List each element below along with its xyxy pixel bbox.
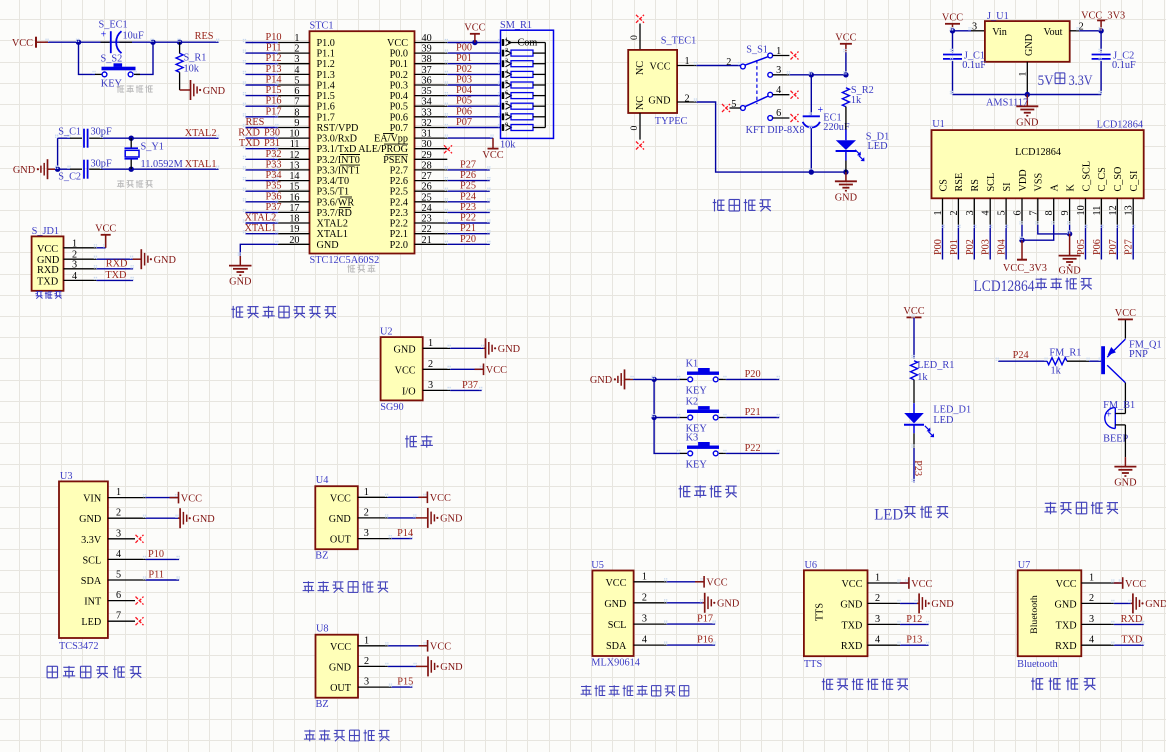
svg-text:U3: U3 bbox=[60, 471, 73, 482]
svg-text:BEEP: BEEP bbox=[1103, 434, 1128, 445]
svg-text:RXD: RXD bbox=[1055, 641, 1077, 652]
svg-text:VCC: VCC bbox=[841, 579, 862, 590]
svg-text:EA/Vpp: EA/Vpp bbox=[374, 134, 408, 145]
svg-text:3.3V: 3.3V bbox=[1069, 72, 1093, 89]
svg-text:12: 12 bbox=[1108, 205, 1119, 215]
svg-text:5: 5 bbox=[294, 76, 299, 87]
svg-text:VCC_3V3: VCC_3V3 bbox=[1003, 263, 1047, 274]
svg-text:GND: GND bbox=[394, 344, 416, 355]
svg-text:GND: GND bbox=[329, 662, 351, 673]
svg-text:3: 3 bbox=[972, 21, 977, 32]
svg-text:P26: P26 bbox=[460, 170, 476, 181]
svg-text:P04: P04 bbox=[456, 85, 472, 96]
svg-text:P1.5: P1.5 bbox=[317, 91, 335, 102]
svg-text:3: 3 bbox=[1089, 614, 1094, 625]
svg-text:VCC: VCC bbox=[1115, 308, 1136, 319]
svg-text:BZ: BZ bbox=[315, 551, 328, 562]
svg-text:RXD: RXD bbox=[106, 258, 128, 269]
svg-text:P3.0/RxD: P3.0/RxD bbox=[317, 134, 357, 145]
svg-text:3: 3 bbox=[642, 614, 647, 625]
svg-text:TXD: TXD bbox=[1121, 635, 1143, 646]
svg-text:13: 13 bbox=[1124, 205, 1135, 215]
svg-text:GND: GND bbox=[931, 599, 954, 610]
svg-text:2: 2 bbox=[1079, 21, 1084, 32]
svg-text:P00: P00 bbox=[933, 239, 944, 255]
svg-text:P03: P03 bbox=[981, 239, 992, 255]
svg-text:P2.2: P2.2 bbox=[390, 219, 408, 230]
svg-text:KFT DIP-8X8: KFT DIP-8X8 bbox=[746, 125, 805, 136]
svg-text:VCC: VCC bbox=[330, 642, 351, 653]
svg-text:C_SO: C_SO bbox=[1113, 167, 1124, 192]
svg-text:1: 1 bbox=[505, 37, 508, 44]
svg-text:1: 1 bbox=[1089, 573, 1094, 584]
svg-text:14: 14 bbox=[289, 171, 299, 182]
svg-text:+: + bbox=[1106, 410, 1112, 421]
svg-text:OUT: OUT bbox=[330, 683, 352, 694]
svg-text:VCC: VCC bbox=[650, 62, 671, 73]
svg-text:Bluetooth: Bluetooth bbox=[1029, 595, 1040, 634]
svg-text:XTAL1: XTAL1 bbox=[185, 159, 217, 170]
svg-text:K1: K1 bbox=[686, 358, 699, 369]
svg-text:VCC: VCC bbox=[430, 493, 451, 504]
svg-text:C_SCL: C_SCL bbox=[1081, 161, 1092, 192]
svg-text:P06: P06 bbox=[1092, 239, 1103, 255]
svg-text:P27: P27 bbox=[1124, 239, 1135, 255]
svg-text:U1: U1 bbox=[932, 119, 945, 130]
svg-text:3: 3 bbox=[428, 380, 433, 391]
svg-text:4: 4 bbox=[116, 549, 121, 560]
svg-text:P1.7: P1.7 bbox=[317, 112, 335, 123]
svg-text:9: 9 bbox=[505, 122, 508, 129]
svg-text:XTAL2: XTAL2 bbox=[185, 128, 217, 139]
svg-text:BZ: BZ bbox=[316, 699, 329, 710]
svg-text:S_S2: S_S2 bbox=[101, 54, 123, 65]
svg-text:P12: P12 bbox=[906, 614, 922, 625]
svg-text:1k: 1k bbox=[851, 95, 862, 106]
svg-text:SCL: SCL bbox=[986, 173, 997, 192]
svg-text:S_C1: S_C1 bbox=[58, 127, 81, 138]
svg-text:P3.2/INT0: P3.2/INT0 bbox=[317, 155, 360, 166]
svg-text:VCC: VCC bbox=[1056, 579, 1077, 590]
svg-text:10: 10 bbox=[289, 129, 299, 140]
svg-text:P30: P30 bbox=[264, 128, 280, 139]
svg-text:18: 18 bbox=[289, 214, 299, 225]
svg-text:15: 15 bbox=[289, 182, 299, 193]
svg-text:1: 1 bbox=[685, 56, 690, 67]
svg-text:VCC: VCC bbox=[706, 578, 727, 589]
svg-text:STC12C5A60S2: STC12C5A60S2 bbox=[310, 255, 380, 266]
svg-text:LCD12864: LCD12864 bbox=[1015, 147, 1061, 158]
svg-text:VCC: VCC bbox=[430, 642, 451, 653]
svg-text:I/O: I/O bbox=[402, 386, 416, 397]
svg-text:SG90: SG90 bbox=[380, 402, 403, 413]
svg-text:VCC: VCC bbox=[1125, 579, 1146, 590]
svg-text:9: 9 bbox=[1060, 210, 1071, 215]
svg-text:P17: P17 bbox=[697, 614, 713, 625]
svg-text:P27: P27 bbox=[460, 159, 476, 170]
svg-text:10uF: 10uF bbox=[123, 31, 144, 42]
svg-text:GND: GND bbox=[13, 165, 36, 176]
svg-text:VCC: VCC bbox=[387, 38, 408, 49]
svg-text:0.1uF: 0.1uF bbox=[962, 60, 986, 71]
svg-text:2: 2 bbox=[875, 593, 880, 604]
svg-text:VCC: VCC bbox=[181, 493, 202, 504]
svg-text:AMS1117: AMS1117 bbox=[986, 97, 1028, 108]
svg-text:LED_R1: LED_R1 bbox=[917, 360, 954, 371]
svg-text:XTAL2: XTAL2 bbox=[245, 213, 277, 224]
svg-text:11: 11 bbox=[1092, 206, 1103, 216]
svg-text:VCC: VCC bbox=[482, 150, 503, 161]
svg-text:P0.7: P0.7 bbox=[390, 123, 408, 134]
svg-text:U2: U2 bbox=[380, 327, 393, 338]
svg-text:7: 7 bbox=[294, 97, 299, 108]
svg-text:P10: P10 bbox=[265, 32, 281, 43]
svg-text:K2: K2 bbox=[686, 397, 699, 408]
svg-text:S_S1: S_S1 bbox=[746, 45, 768, 56]
svg-text:3: 3 bbox=[116, 528, 121, 539]
svg-text:Com: Com bbox=[518, 37, 538, 48]
svg-text:1k: 1k bbox=[1051, 366, 1062, 377]
svg-text:P32: P32 bbox=[265, 149, 281, 160]
svg-text:VCC: VCC bbox=[464, 23, 485, 34]
svg-text:10k: 10k bbox=[184, 64, 200, 75]
svg-text:SDA: SDA bbox=[606, 641, 627, 652]
svg-text:S_Y1: S_Y1 bbox=[141, 142, 164, 153]
svg-text:PSEN: PSEN bbox=[383, 155, 409, 166]
svg-text:4: 4 bbox=[981, 210, 992, 215]
svg-text:PNP: PNP bbox=[1129, 349, 1148, 360]
svg-text:C_SI: C_SI bbox=[1129, 170, 1140, 192]
svg-text:FM_B1: FM_B1 bbox=[1103, 400, 1135, 411]
svg-text:3: 3 bbox=[505, 58, 508, 65]
svg-text:6: 6 bbox=[294, 86, 299, 97]
svg-text:SCL: SCL bbox=[608, 620, 627, 631]
svg-text:1: 1 bbox=[294, 33, 299, 44]
svg-text:5: 5 bbox=[116, 570, 121, 581]
svg-text:1: 1 bbox=[933, 210, 944, 215]
svg-text:P0.4: P0.4 bbox=[390, 91, 408, 102]
svg-text:SM_R1: SM_R1 bbox=[500, 20, 532, 31]
svg-text:P25: P25 bbox=[460, 181, 476, 192]
svg-text:5: 5 bbox=[997, 210, 1008, 215]
svg-text:OUT: OUT bbox=[330, 535, 352, 546]
svg-text:U5: U5 bbox=[591, 560, 604, 571]
svg-text:S_EC1: S_EC1 bbox=[99, 19, 128, 30]
svg-text:VCC: VCC bbox=[95, 224, 116, 235]
svg-text:RXD: RXD bbox=[841, 641, 863, 652]
svg-text:GND: GND bbox=[1058, 266, 1081, 277]
svg-text:3: 3 bbox=[364, 677, 369, 688]
svg-text:K3: K3 bbox=[686, 432, 699, 443]
svg-text:Bluetooth: Bluetooth bbox=[1017, 659, 1058, 670]
svg-text:Vout: Vout bbox=[1043, 27, 1062, 38]
svg-text:P2.0: P2.0 bbox=[390, 240, 408, 251]
svg-text:TXD: TXD bbox=[37, 276, 59, 287]
svg-text:1: 1 bbox=[116, 487, 121, 498]
svg-text:P23: P23 bbox=[912, 460, 923, 476]
svg-text:P0.6: P0.6 bbox=[390, 112, 408, 123]
svg-text:CS: CS bbox=[938, 179, 949, 192]
svg-text:4: 4 bbox=[642, 635, 647, 646]
svg-text:2: 2 bbox=[1089, 593, 1094, 604]
svg-text:P24: P24 bbox=[460, 191, 476, 202]
svg-text:S_C2: S_C2 bbox=[58, 172, 81, 183]
svg-text:GND: GND bbox=[1114, 478, 1137, 489]
svg-text:U8: U8 bbox=[316, 623, 329, 634]
svg-text:P02: P02 bbox=[456, 64, 472, 75]
svg-text:2: 2 bbox=[364, 656, 369, 667]
svg-text:P17: P17 bbox=[265, 106, 281, 117]
svg-text:P15: P15 bbox=[397, 677, 413, 688]
svg-text:5V: 5V bbox=[1038, 72, 1054, 89]
svg-text:XTAL2: XTAL2 bbox=[317, 219, 348, 230]
svg-text:30pF: 30pF bbox=[91, 158, 112, 169]
svg-text:GND: GND bbox=[840, 599, 862, 610]
svg-text:NC: NC bbox=[635, 61, 646, 75]
svg-text:VDD: VDD bbox=[1018, 169, 1029, 191]
svg-text:RXD: RXD bbox=[238, 128, 260, 139]
svg-text:P1.6: P1.6 bbox=[317, 102, 335, 113]
svg-text:P3.1/TxD: P3.1/TxD bbox=[317, 144, 357, 155]
svg-text:P1.3: P1.3 bbox=[317, 70, 335, 81]
svg-text:P2.7: P2.7 bbox=[390, 165, 408, 176]
svg-text:P07: P07 bbox=[456, 117, 472, 128]
svg-text:LED: LED bbox=[81, 617, 101, 628]
svg-text:10: 10 bbox=[1076, 205, 1087, 215]
svg-text:VSS: VSS bbox=[1034, 172, 1045, 191]
svg-text:GND: GND bbox=[440, 662, 463, 673]
svg-text:13: 13 bbox=[289, 160, 299, 171]
svg-text:3: 3 bbox=[364, 528, 369, 539]
svg-text:11.0592M: 11.0592M bbox=[141, 159, 183, 170]
svg-text:VCC: VCC bbox=[911, 579, 932, 590]
svg-text:0: 0 bbox=[629, 35, 640, 40]
svg-text:KEY: KEY bbox=[686, 385, 708, 396]
svg-text:U6: U6 bbox=[805, 560, 818, 571]
svg-text:2: 2 bbox=[949, 210, 960, 215]
svg-text:RES: RES bbox=[195, 31, 214, 42]
svg-text:P07: P07 bbox=[1108, 239, 1119, 255]
svg-text:C_CS: C_CS bbox=[1097, 167, 1108, 192]
svg-text:P05: P05 bbox=[1076, 239, 1087, 255]
svg-text:P3.7/RD: P3.7/RD bbox=[317, 208, 352, 219]
svg-text:VCC: VCC bbox=[12, 38, 33, 49]
svg-text:8: 8 bbox=[294, 107, 299, 118]
svg-text:19: 19 bbox=[289, 224, 299, 235]
svg-text:MLX90614: MLX90614 bbox=[591, 658, 640, 669]
svg-text:J_U1: J_U1 bbox=[987, 11, 1009, 22]
svg-text:4: 4 bbox=[875, 635, 880, 646]
svg-text:GND: GND bbox=[1024, 34, 1035, 56]
svg-text:GND: GND bbox=[79, 514, 101, 525]
svg-text:P37: P37 bbox=[462, 380, 478, 391]
svg-text:1k: 1k bbox=[917, 372, 928, 383]
svg-text:U4: U4 bbox=[316, 475, 329, 486]
svg-text:TTS: TTS bbox=[804, 659, 823, 670]
svg-text:TXD: TXD bbox=[841, 620, 862, 631]
svg-text:P13: P13 bbox=[906, 635, 922, 646]
svg-text:2: 2 bbox=[116, 508, 121, 519]
svg-text:STC1: STC1 bbox=[310, 20, 334, 31]
svg-text:+: + bbox=[101, 30, 107, 41]
svg-text:SI: SI bbox=[1002, 182, 1013, 192]
svg-text:17: 17 bbox=[289, 203, 299, 214]
svg-text:VIN: VIN bbox=[83, 494, 102, 505]
svg-text:P37: P37 bbox=[265, 202, 281, 213]
svg-text:2: 2 bbox=[685, 93, 690, 104]
svg-text:P0.0: P0.0 bbox=[390, 49, 408, 60]
svg-text:VCC: VCC bbox=[486, 365, 507, 376]
svg-text:GND: GND bbox=[329, 514, 351, 525]
svg-text:P34: P34 bbox=[265, 170, 281, 181]
svg-text:P0.5: P0.5 bbox=[390, 102, 408, 113]
svg-text:P06: P06 bbox=[456, 106, 472, 117]
svg-text:P1.0: P1.0 bbox=[317, 38, 335, 49]
svg-text:P01: P01 bbox=[949, 239, 960, 255]
svg-text:RS: RS bbox=[970, 179, 981, 192]
svg-text:GND: GND bbox=[203, 86, 226, 97]
svg-text:0.1uF: 0.1uF bbox=[1112, 60, 1136, 71]
svg-text:S_JD1: S_JD1 bbox=[32, 226, 59, 237]
svg-text:1: 1 bbox=[364, 635, 369, 646]
svg-text:P04: P04 bbox=[997, 239, 1008, 255]
svg-text:GND: GND bbox=[1145, 599, 1166, 610]
svg-text:P00: P00 bbox=[456, 43, 472, 54]
svg-text:P2.1: P2.1 bbox=[390, 229, 408, 240]
svg-text:P05: P05 bbox=[456, 96, 472, 107]
svg-text:P1.4: P1.4 bbox=[317, 81, 335, 92]
svg-text:8: 8 bbox=[505, 111, 508, 118]
svg-text:P14: P14 bbox=[397, 528, 413, 539]
svg-text:P33: P33 bbox=[265, 159, 281, 170]
svg-text:1: 1 bbox=[642, 571, 647, 582]
svg-text:GND: GND bbox=[498, 344, 521, 355]
svg-text:GND: GND bbox=[1016, 117, 1039, 128]
svg-text:8: 8 bbox=[1044, 210, 1055, 215]
svg-text:P20: P20 bbox=[745, 369, 761, 380]
svg-text:1: 1 bbox=[875, 573, 880, 584]
svg-text:SCL: SCL bbox=[83, 555, 102, 566]
svg-text:P1.1: P1.1 bbox=[317, 49, 335, 60]
svg-text:GND: GND bbox=[1055, 599, 1077, 610]
svg-text:P21: P21 bbox=[745, 407, 761, 418]
svg-text:U7: U7 bbox=[1018, 560, 1031, 571]
svg-text:GND: GND bbox=[590, 375, 613, 386]
svg-text:3.3V: 3.3V bbox=[81, 535, 102, 546]
svg-text:P2.3: P2.3 bbox=[390, 208, 408, 219]
svg-text:1: 1 bbox=[72, 238, 77, 249]
svg-text:2: 2 bbox=[428, 359, 433, 370]
svg-text:4: 4 bbox=[1089, 635, 1094, 646]
svg-text:P36: P36 bbox=[265, 191, 281, 202]
svg-text:P14: P14 bbox=[265, 75, 281, 86]
svg-text:20: 20 bbox=[289, 235, 299, 246]
svg-text:6: 6 bbox=[116, 590, 121, 601]
svg-text:P0.1: P0.1 bbox=[390, 59, 408, 70]
svg-text:XTAL1: XTAL1 bbox=[245, 223, 277, 234]
svg-text:S_TEC1: S_TEC1 bbox=[661, 36, 696, 47]
svg-text:4: 4 bbox=[72, 271, 77, 282]
svg-text:P22: P22 bbox=[460, 213, 476, 224]
svg-text:5: 5 bbox=[505, 79, 508, 86]
svg-text:GND: GND bbox=[648, 95, 670, 106]
svg-text:2: 2 bbox=[726, 57, 731, 68]
svg-text:RST/VPD: RST/VPD bbox=[317, 123, 359, 134]
svg-text:S_R1: S_R1 bbox=[184, 53, 207, 64]
svg-text:GND: GND bbox=[717, 599, 740, 610]
svg-text:LED: LED bbox=[933, 415, 954, 426]
svg-text:KEY: KEY bbox=[686, 459, 708, 470]
svg-text:P24: P24 bbox=[1013, 350, 1029, 361]
svg-text:VCC_3V3: VCC_3V3 bbox=[1081, 11, 1125, 22]
svg-text:P31: P31 bbox=[264, 138, 280, 149]
svg-text:TXD: TXD bbox=[239, 138, 261, 149]
svg-text:GND: GND bbox=[604, 599, 626, 610]
svg-text:P16: P16 bbox=[697, 635, 713, 646]
svg-text:LED_D1: LED_D1 bbox=[933, 405, 971, 416]
svg-text:9: 9 bbox=[294, 118, 299, 129]
svg-text:K: K bbox=[1065, 184, 1076, 192]
svg-text:RSE: RSE bbox=[954, 173, 965, 192]
svg-text:VCC: VCC bbox=[942, 13, 963, 24]
svg-text:TXD: TXD bbox=[105, 270, 127, 281]
svg-text:12: 12 bbox=[289, 150, 299, 161]
svg-text:30pF: 30pF bbox=[91, 127, 112, 138]
svg-text:KEY: KEY bbox=[101, 79, 123, 90]
svg-text:P3.6/WR: P3.6/WR bbox=[317, 197, 355, 208]
svg-text:XTAL1: XTAL1 bbox=[317, 229, 348, 240]
svg-text:3: 3 bbox=[294, 54, 299, 65]
svg-text:VCC: VCC bbox=[605, 578, 626, 589]
svg-text:GND: GND bbox=[835, 192, 858, 203]
svg-text:TYPEC: TYPEC bbox=[655, 116, 688, 127]
svg-text:VCC: VCC bbox=[330, 493, 351, 504]
svg-text:1: 1 bbox=[364, 487, 369, 498]
svg-text:FM_R1: FM_R1 bbox=[1049, 348, 1081, 359]
svg-text:GND: GND bbox=[192, 514, 215, 525]
svg-text:P2.6: P2.6 bbox=[390, 176, 408, 187]
svg-text:16: 16 bbox=[289, 192, 299, 203]
svg-text:P11: P11 bbox=[148, 570, 164, 581]
svg-text:P15: P15 bbox=[265, 85, 281, 96]
svg-text:P11: P11 bbox=[266, 43, 282, 54]
svg-text:P3.4/T0: P3.4/T0 bbox=[317, 176, 350, 187]
svg-text:ALE/PROG: ALE/PROG bbox=[358, 144, 408, 155]
svg-text:Vin: Vin bbox=[992, 27, 1007, 38]
svg-text:3: 3 bbox=[72, 259, 77, 270]
svg-text:GND: GND bbox=[440, 514, 463, 525]
svg-text:GND: GND bbox=[154, 255, 177, 266]
svg-text:1: 1 bbox=[428, 338, 433, 349]
svg-text:RES: RES bbox=[246, 117, 265, 128]
svg-text:P01: P01 bbox=[456, 53, 472, 64]
svg-text:RXD: RXD bbox=[1121, 614, 1143, 625]
svg-text:VCC: VCC bbox=[395, 365, 416, 376]
svg-text:2: 2 bbox=[505, 47, 508, 54]
svg-text:VCC: VCC bbox=[37, 244, 58, 255]
svg-text:P23: P23 bbox=[460, 202, 476, 213]
svg-text:2: 2 bbox=[364, 507, 369, 518]
svg-text:6: 6 bbox=[1013, 210, 1024, 215]
svg-text:7: 7 bbox=[116, 611, 121, 622]
svg-text:P16: P16 bbox=[265, 96, 281, 107]
svg-text:VCC: VCC bbox=[835, 33, 856, 44]
svg-text:LCD12864: LCD12864 bbox=[1097, 120, 1143, 131]
svg-text:P22: P22 bbox=[745, 443, 761, 454]
svg-text:TTS: TTS bbox=[815, 603, 826, 621]
svg-text:P02: P02 bbox=[965, 239, 976, 255]
svg-text:P13: P13 bbox=[265, 64, 281, 75]
